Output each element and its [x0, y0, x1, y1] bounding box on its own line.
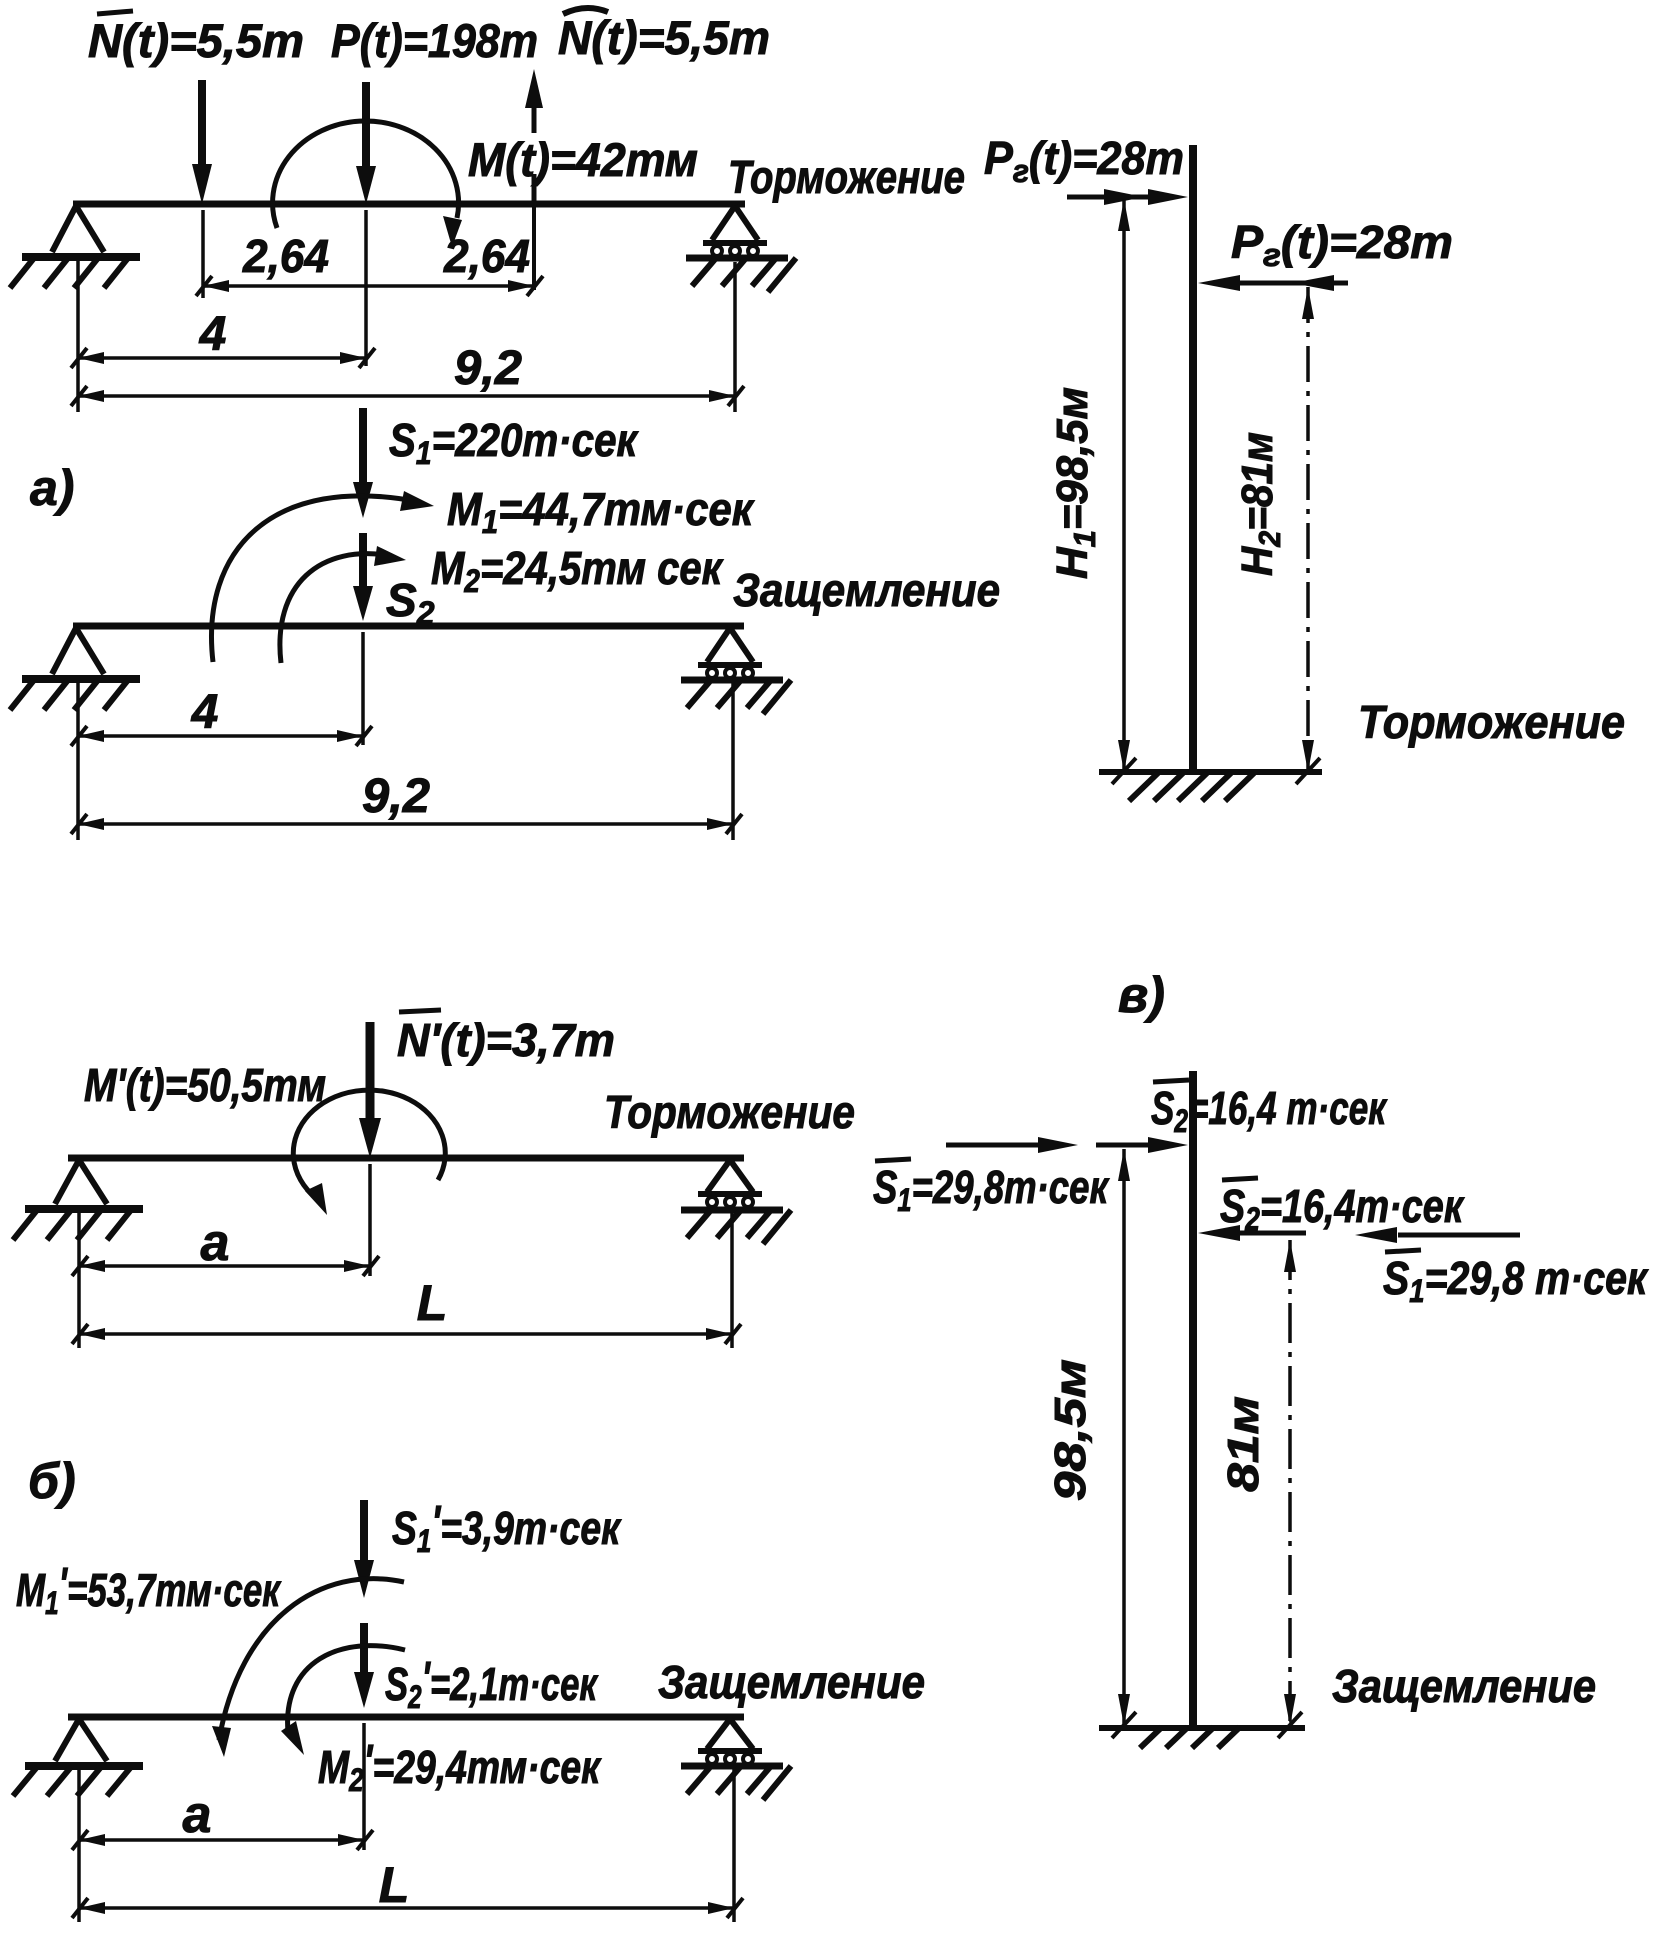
- load arrow N(t) left: [198, 80, 206, 170]
- right support ground A1: [686, 255, 788, 262]
- load arrow S1: [359, 408, 367, 486]
- extension x79 B1: [77, 1212, 81, 1348]
- left support ground A2: [22, 675, 140, 683]
- svg-text:N'(t)=3,7т: N'(t)=3,7т: [397, 1014, 615, 1066]
- force arrow S1 left long: [946, 1143, 1038, 1148]
- svg-text:P(t)=198т: P(t)=198т: [331, 14, 538, 67]
- right roller support A1: [712, 206, 758, 240]
- svg-text:Защемление: Защемление: [733, 564, 1000, 616]
- svg-text:9,2: 9,2: [454, 342, 522, 395]
- moment arc M2': [288, 1646, 405, 1732]
- svg-text:а): а): [30, 460, 74, 516]
- left support ground B2: [25, 1762, 143, 1770]
- moment arc M'(t): [293, 1090, 445, 1198]
- extension line x735: [733, 262, 737, 412]
- left support hatching A2: [10, 680, 128, 710]
- svg-text:L: L: [379, 1857, 410, 1913]
- extension x78 A2: [76, 682, 80, 840]
- dim line 4 A2: [78, 734, 363, 738]
- ground hatching C2: [1140, 1727, 1240, 1748]
- dim line L B1: [79, 1332, 732, 1336]
- extension x734 B2: [732, 1769, 736, 1922]
- right support hatching B1: [687, 1210, 791, 1244]
- extension x733 A2: [731, 682, 735, 840]
- moment arc M1: [212, 496, 420, 662]
- svg-text:S1=220т·сек: S1=220т·сек: [389, 414, 639, 471]
- left support ground A1: [22, 253, 140, 261]
- dim line L B2: [79, 1906, 734, 1910]
- left pin support B1: [55, 1160, 107, 1204]
- svg-text:2,64: 2,64: [443, 230, 530, 282]
- svg-text:S1=29,8т·сек: S1=29,8т·сек: [873, 1161, 1110, 1218]
- svg-text:M1=44,7тм·сек: M1=44,7тм·сек: [447, 483, 755, 540]
- right support hatching A2: [687, 680, 791, 714]
- svg-text:S1=29,8 т·сек: S1=29,8 т·сек: [1383, 1252, 1649, 1309]
- load arrow S2': [360, 1623, 368, 1674]
- load arrow P(t): [362, 82, 370, 172]
- left support hatching B1: [13, 1210, 131, 1240]
- svg-text:Торможение: Торможение: [604, 1086, 855, 1138]
- dim 81m line: [1288, 1240, 1292, 1726]
- beam A1: [73, 201, 745, 208]
- ground C1: [1099, 769, 1322, 775]
- svg-text:M2=24,5тм сек: M2=24,5тм сек: [431, 542, 724, 599]
- right support hatching B2: [687, 1766, 791, 1800]
- svg-text:N(t)=5,5т: N(t)=5,5т: [558, 11, 770, 64]
- extension x79 B2: [77, 1769, 81, 1922]
- left pin support B2: [55, 1719, 107, 1761]
- svg-text:в): в): [1118, 967, 1165, 1023]
- right support hatching A1: [692, 258, 796, 292]
- svg-text:Торможение: Торможение: [1358, 696, 1625, 748]
- dim H2 line dash-dot: [1306, 287, 1310, 772]
- force arrow S1 right long: [1398, 1233, 1520, 1238]
- svg-text:S2=16,4т·сек: S2=16,4т·сек: [1220, 1180, 1465, 1237]
- svg-text:Pг(t)=28т: Pг(t)=28т: [1231, 216, 1453, 273]
- column C2: [1189, 1071, 1197, 1728]
- svg-text:H1=98,5м: H1=98,5м: [1048, 387, 1102, 579]
- svg-text:M1'=53,7тм·сек: M1'=53,7тм·сек: [16, 1558, 282, 1621]
- extension line below P arrow: [364, 210, 368, 366]
- dim line 2,64 / 2,64: [203, 284, 534, 288]
- moment arc M2: [280, 554, 392, 663]
- force arrow S2 right: [1240, 1231, 1306, 1236]
- load arrow N'(t): [366, 1022, 375, 1122]
- left pin support A1: [52, 206, 104, 252]
- load arrow S1': [360, 1500, 368, 1562]
- dim line 9,2: [78, 394, 735, 398]
- svg-text:2,64: 2,64: [242, 230, 329, 282]
- load arrow S2: [359, 533, 367, 590]
- svg-text:Торможение: Торможение: [728, 151, 965, 203]
- dim 98,5m line: [1122, 1149, 1126, 1726]
- svg-text:S2=16,4 т·сек: S2=16,4 т·сек: [1151, 1082, 1388, 1139]
- svg-text:б): б): [28, 1453, 76, 1509]
- svg-text:Защемление: Защемление: [1332, 1660, 1596, 1712]
- column C1: [1189, 145, 1197, 775]
- beam B1: [68, 1155, 744, 1162]
- svg-text:M'(t)=50,5тм: M'(t)=50,5тм: [84, 1059, 326, 1111]
- ground hatching C1: [1129, 773, 1254, 801]
- svg-text:9,2: 9,2: [362, 770, 430, 823]
- dim line a B1: [79, 1264, 370, 1268]
- ground C2: [1099, 1725, 1305, 1731]
- force arrow Pg(t) top: [1067, 195, 1150, 200]
- svg-text:N(t)=5,5т: N(t)=5,5т: [88, 14, 304, 67]
- right support ground A2: [681, 677, 783, 684]
- extension line x78: [76, 260, 80, 412]
- extension below N' arrow: [368, 1164, 372, 1276]
- right roller support B1: [707, 1160, 753, 1192]
- beam B2: [68, 1714, 744, 1721]
- extension line x203: [201, 210, 205, 298]
- svg-text:S2: S2: [386, 574, 435, 631]
- left support hatching B2: [13, 1767, 131, 1796]
- force arrow Pg(t) right: [1240, 281, 1348, 286]
- svg-text:a: a: [201, 1214, 230, 1272]
- svg-text:Pг(t)=28т: Pг(t)=28т: [984, 132, 1184, 189]
- dim line 4: [78, 356, 366, 360]
- dashed uplift arrow N(t) right: [525, 69, 543, 108]
- dim line a B2: [79, 1838, 364, 1842]
- right support ground B2: [681, 1763, 783, 1770]
- svg-text:M2'=29,4тм·сек: M2'=29,4тм·сек: [318, 1735, 602, 1798]
- svg-text:H2=81м: H2=81м: [1233, 432, 1287, 576]
- dim line 9,2 A2: [78, 822, 733, 826]
- svg-text:S2'=2,1т·сек: S2'=2,1т·сек: [385, 1652, 599, 1715]
- svg-text:a: a: [183, 1786, 212, 1844]
- svg-text:M(t)=42тм: M(t)=42тм: [468, 133, 698, 186]
- dim H1 line: [1122, 199, 1126, 772]
- svg-text:Защемление: Защемление: [658, 1656, 925, 1708]
- extension below S2: [361, 632, 365, 745]
- svg-text:4: 4: [191, 686, 219, 739]
- right roller support A2: [707, 628, 753, 662]
- right roller support B2: [707, 1719, 753, 1749]
- left pin support A2: [52, 628, 104, 674]
- moment arc M(t): [273, 121, 459, 228]
- right support ground B1: [681, 1207, 783, 1214]
- svg-text:L: L: [417, 1275, 448, 1331]
- svg-text:98,5м: 98,5м: [1046, 1359, 1095, 1501]
- left support hatching A1: [10, 258, 128, 288]
- moment arc M1': [219, 1579, 404, 1740]
- extension x732 B1: [730, 1212, 734, 1348]
- force arrow S2 left short: [1096, 1143, 1150, 1148]
- left support ground B1: [25, 1205, 143, 1213]
- svg-text:S1'=3,9т·сек: S1'=3,9т·сек: [392, 1496, 622, 1559]
- svg-text:81м: 81м: [1219, 1396, 1268, 1492]
- beam A2: [73, 623, 744, 630]
- svg-text:4: 4: [199, 308, 227, 361]
- extension below S2' arrow: [362, 1723, 366, 1850]
